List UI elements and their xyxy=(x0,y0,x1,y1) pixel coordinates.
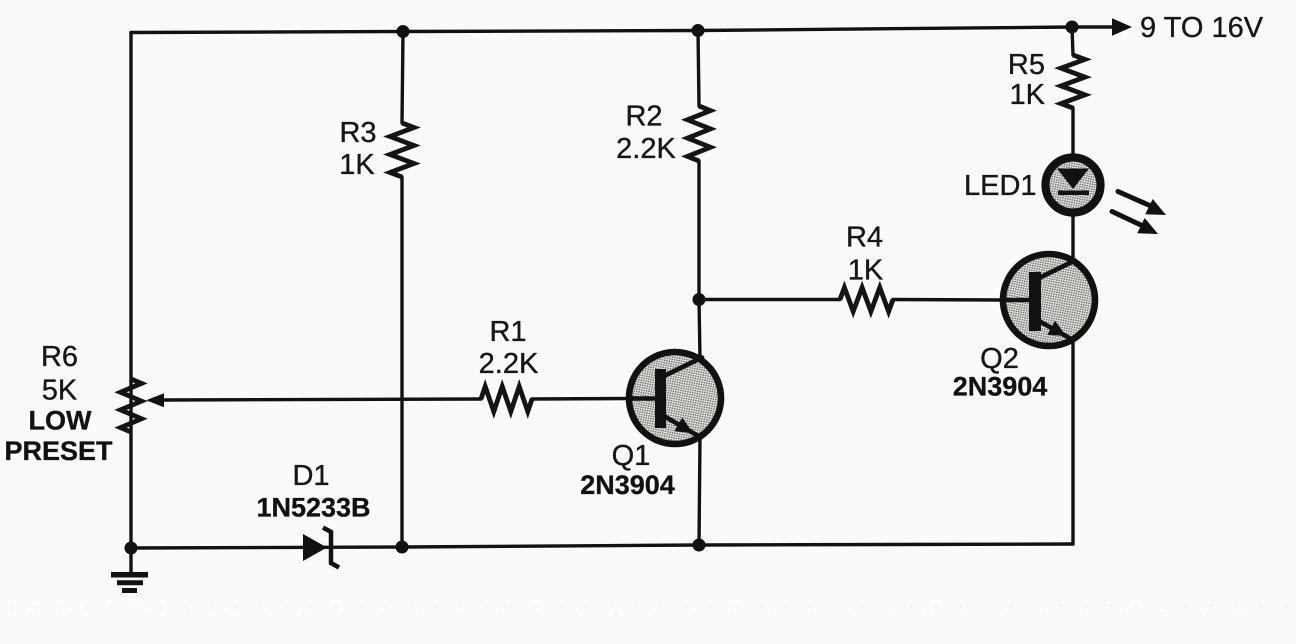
svg-text:1K: 1K xyxy=(1010,79,1046,111)
junction: R2 branch at top rail xyxy=(692,24,705,37)
wire: R2 / Q1 branch vertical xyxy=(698,31,699,107)
resistor R3 zigzag xyxy=(390,123,414,177)
svg-text:R1: R1 xyxy=(489,316,526,348)
svg-text:1N5233B: 1N5233B xyxy=(256,493,370,523)
svg-text:PRESET: PRESET xyxy=(4,436,113,466)
Q1 base bar xyxy=(655,369,666,428)
junction: R3 branch at top rail xyxy=(397,25,410,38)
svg-text:LOW: LOW xyxy=(29,406,92,436)
wire: R4 branch from node to Q2 base xyxy=(699,298,840,301)
zener diode D1 triangle xyxy=(303,534,327,561)
Q1 collector line xyxy=(664,358,702,377)
Q2 collector line xyxy=(1039,261,1075,279)
potentiometer R6 zigzag xyxy=(121,379,142,432)
Q2 body circle xyxy=(1003,254,1095,346)
svg-text:2.2K: 2.2K xyxy=(479,348,539,380)
wire: bottom ground rail xyxy=(131,544,1073,548)
junction: R5 branch at supply arrow xyxy=(1066,21,1079,34)
Q1 emitter line xyxy=(664,416,700,437)
svg-text:9 TO 16V: 9 TO 16V xyxy=(1140,12,1264,44)
svg-text:2N3904: 2N3904 xyxy=(953,372,1048,402)
LED light arrow lower head xyxy=(1137,218,1158,234)
svg-text:R4: R4 xyxy=(846,222,883,254)
resistor R1 zigzag xyxy=(481,387,532,412)
R6 wiper arrowhead xyxy=(146,393,164,407)
Q2 base bar xyxy=(1029,272,1041,331)
Q2 emitter arrowhead xyxy=(1047,321,1066,336)
LED1 cathode bar xyxy=(1058,191,1089,196)
svg-text:D1: D1 xyxy=(292,460,329,492)
svg-text:R2: R2 xyxy=(625,101,662,133)
Q1 body circle xyxy=(629,352,721,444)
svg-text:R5: R5 xyxy=(1008,49,1045,81)
ground symbol xyxy=(129,548,132,572)
wire: top rail from top-left corner to supply arrow junction xyxy=(131,27,1072,33)
Q2 base lead xyxy=(1003,298,1030,303)
LED1 body circle xyxy=(1046,158,1101,213)
svg-text:R6: R6 xyxy=(41,341,78,373)
junction: R3 branch at ground rail xyxy=(396,541,409,554)
junction: R4/Q1 collector node xyxy=(693,293,706,306)
Q1 base lead xyxy=(629,396,656,401)
LED light arrow lower shaft xyxy=(1112,212,1143,227)
resistor R5 zigzag xyxy=(1061,55,1085,108)
Q2 emitter line xyxy=(1039,321,1073,340)
svg-text:5K: 5K xyxy=(42,375,78,407)
svg-text:1K: 1K xyxy=(339,149,375,181)
wire: left vertical rail (R6 branch) xyxy=(129,33,132,549)
LED1 body fill xyxy=(1045,157,1101,213)
resistor R4 zigzag xyxy=(840,288,893,312)
wire: R6 wiper line to R1 and Q1 base xyxy=(163,399,481,400)
svg-text:Q2: Q2 xyxy=(980,343,1019,375)
supply arrow shaft xyxy=(1072,25,1113,29)
wire: Q1 emitter to bottom rail xyxy=(699,437,700,545)
transistor Q2 body fill xyxy=(1003,254,1095,346)
supply arrowhead xyxy=(1112,18,1132,35)
resistor R2 zigzag xyxy=(688,106,711,161)
svg-text:R3: R3 xyxy=(339,117,376,149)
svg-text:Q1: Q1 xyxy=(612,440,651,472)
LED light arrow upper head xyxy=(1145,199,1166,215)
zener diode D1 cathode bar with hooks xyxy=(323,528,339,568)
LED1 cathode triangle xyxy=(1057,169,1089,190)
transistor Q1 body fill xyxy=(629,352,721,444)
svg-text:1K: 1K xyxy=(848,255,884,287)
LED light arrow upper shaft xyxy=(1118,192,1152,207)
junction: R6 branch at ground rail xyxy=(125,542,138,555)
wire: R3 branch vertical (top rail to bottom rail) xyxy=(402,32,403,124)
Q1 emitter arrowhead xyxy=(674,418,693,434)
junction: Q1 emitter at ground rail xyxy=(693,539,706,552)
svg-text:2.2K: 2.2K xyxy=(616,133,676,165)
wire: right branch R5/LED/Q2 vertical xyxy=(1072,27,1073,55)
svg-text:LED1: LED1 xyxy=(964,170,1037,202)
svg-text:2N3904: 2N3904 xyxy=(580,470,675,500)
